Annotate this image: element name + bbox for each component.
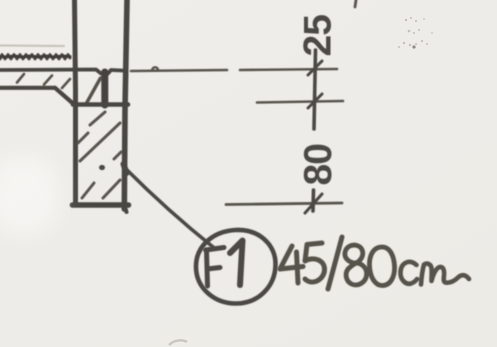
dimension tick 1 — [308, 61, 322, 75]
text m of 45/80cm — [421, 264, 469, 285]
beam hatch h2 — [78, 133, 88, 143]
beam hatch h6 — [114, 152, 121, 159]
dimension line lower segment — [311, 190, 315, 211]
extension line top second segment — [240, 69, 337, 70]
dimension tick 2 — [308, 94, 322, 108]
extension line top (25 upper) — [131, 70, 227, 71]
leader line to F1 bubble — [126, 169, 213, 247]
leader junction blob on beam edge — [124, 164, 127, 173]
paper noise cluster top right — [405, 19, 407, 21]
right wall / beam right edge — [124, 0, 127, 209]
faint smudge at bottom edge — [169, 340, 187, 345]
beam top line — [73, 102, 128, 107]
slab chamfer to beam corner — [55, 88, 73, 104]
slash of 45/80cm — [328, 237, 342, 289]
svg-text:80: 80 — [297, 144, 340, 186]
slab bottom line — [0, 86, 55, 90]
beam hatch h5 — [103, 180, 120, 198]
edge bar (dark block at slab/beam joint) — [101, 72, 108, 105]
beam bottom line — [73, 202, 129, 208]
blob on extension line — [152, 67, 158, 70]
slab hatch tick A — [17, 74, 24, 83]
text 8 of 45/80cm — [345, 245, 367, 285]
slab hatch tick C — [62, 79, 70, 88]
svg-text:25: 25 — [297, 15, 340, 57]
extension line middle (beam top level) — [257, 101, 343, 103]
left wall / beam left edge — [75, 0, 76, 204]
beam hatch h1 — [90, 112, 105, 125]
text 0 of 45/80cm — [369, 247, 394, 286]
faint guide line above insulation — [0, 45, 64, 48]
text 5 of 45/80cm — [305, 243, 325, 282]
insulation band second pass — [0, 56, 70, 57]
top edge mark — [355, 0, 356, 7]
dimension line upper segment — [314, 50, 316, 129]
beam dot — [99, 165, 105, 170]
insulation zigzag band on slab top — [0, 55, 70, 60]
dimension tick 3 — [305, 194, 322, 213]
slab hatch tick B — [44, 76, 52, 85]
joint diagonal stroke — [86, 78, 101, 104]
label F — [206, 248, 225, 287]
beam hatch h4 — [82, 183, 94, 198]
F1 bubble circle — [196, 230, 276, 304]
text 4 of 45/80cm — [280, 246, 303, 269]
label 1 — [230, 241, 243, 286]
text c of 45/80cm — [400, 262, 417, 284]
beam hatch h3 long — [80, 123, 120, 161]
extension line bottom (beam bottom level) — [226, 203, 342, 205]
beam right edge lower tail — [125, 207, 127, 212]
slab top line — [0, 70, 122, 74]
